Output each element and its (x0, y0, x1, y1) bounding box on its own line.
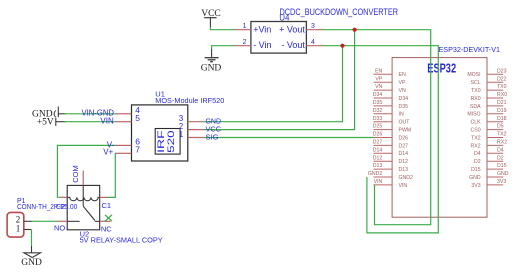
svg-text:GND: GND (21, 258, 42, 268)
svg-text:VIN: VIN (399, 183, 408, 189)
ESP32 right pin D23 (467, 68, 506, 78)
wire U1 pin 3 to -Vout net (GND) (204, 46, 343, 122)
svg-text:CLK: CLK (471, 120, 482, 126)
svg-text:SCL: SCL (471, 80, 481, 86)
ESP32 left pin D35 (373, 100, 408, 110)
svg-text:D19: D19 (497, 108, 507, 114)
wire P1 pin 1 to GND (31, 230, 33, 246)
svg-text:+Vin: +Vin (253, 24, 271, 34)
svg-text:D4: D4 (474, 151, 481, 157)
U1 inner box IRF520 (155, 129, 180, 155)
converter U4 DCDC_BUCKDOWN_CONVERTER (251, 7, 398, 53)
connector P1 body (7, 212, 24, 237)
svg-text:D2: D2 (497, 155, 504, 161)
svg-text:CONN-TH_2P-P5.00: CONN-TH_2P-P5.00 (17, 204, 77, 211)
ESP32 left pin D27 (373, 140, 408, 150)
ESP32 right pin D15 (471, 163, 507, 173)
svg-text:D21: D21 (497, 100, 507, 106)
P1 pin 2 (16, 215, 32, 225)
U4 pin 3 (306, 29, 322, 31)
ESP32 left pin D32 (373, 108, 404, 118)
svg-text:+ Vout: + Vout (279, 24, 305, 34)
ESP32 left pin EN (374, 68, 406, 78)
U1 pin 4 (116, 113, 132, 115)
ESP32 left pin D13 (373, 163, 408, 173)
relay pin C1 (100, 197, 111, 210)
svg-text:1: 1 (179, 130, 184, 139)
svg-text:GND: GND (497, 171, 509, 177)
svg-text:ESP32: ESP32 (427, 61, 456, 75)
svg-text:NC: NC (101, 224, 112, 233)
ESP32 left pin GND2 (368, 171, 413, 181)
svg-text:D14: D14 (399, 151, 409, 157)
svg-text:D35: D35 (399, 104, 409, 110)
relay pin NC (100, 221, 113, 233)
svg-text:D2: D2 (474, 159, 481, 165)
svg-text:RX0: RX0 (497, 92, 507, 98)
MOS module U1 MOS-Module IRF520 (132, 90, 225, 161)
ESP32 left pin D12 (373, 155, 408, 165)
net port +5V (37, 117, 66, 127)
svg-text:1: 1 (16, 223, 21, 233)
wire U1 pin 7 (V+) to relay C1 (108, 153, 116, 197)
svg-text:VN: VN (375, 84, 382, 90)
junction on +Vout net (353, 28, 357, 32)
svg-text:7: 7 (135, 145, 140, 155)
svg-text:TX0: TX0 (497, 84, 507, 90)
svg-text:TX0: TX0 (471, 88, 481, 94)
ESP32 left pin D14 (373, 147, 408, 157)
svg-text:D25: D25 (373, 124, 383, 130)
U4 pin 2 (235, 45, 251, 47)
wire VCC to U4 pin 1 (210, 27, 235, 30)
U1 pin 7 (116, 152, 132, 154)
relay pin NO (54, 221, 67, 232)
svg-text:GND: GND (469, 175, 481, 181)
svg-text:CS0: CS0 (471, 128, 481, 134)
svg-text:520: 520 (166, 130, 176, 153)
relay switch blade (83, 206, 95, 220)
wire U1 pin 6 (V-) to relay C2 (57, 145, 115, 197)
svg-text:GND2: GND2 (399, 175, 414, 181)
svg-text:5V RELAY-SMALL COPY: 5V RELAY-SMALL COPY (80, 236, 163, 245)
svg-text:MOSI: MOSI (467, 72, 480, 78)
U1 pin 1 (188, 137, 204, 139)
ESP32 right pin D19 (467, 108, 506, 118)
svg-text:TX2: TX2 (497, 132, 507, 138)
ESP32 right pin GND (469, 171, 509, 181)
ESP32 right pin RX0 (471, 92, 508, 102)
svg-text:COM: COM (71, 165, 80, 183)
ESP32 right pin D5 (471, 124, 504, 134)
no-connect flag on NC (105, 215, 112, 221)
ESP32 right pin TX2 (471, 132, 507, 142)
svg-text:2: 2 (243, 39, 247, 46)
svg-text:VP: VP (399, 80, 406, 86)
relay U2 body (67, 185, 100, 229)
ESP32 right pin TX0 (471, 84, 507, 94)
P1 pin 1 (16, 223, 32, 233)
svg-text:D34: D34 (373, 92, 383, 98)
svg-text:D15: D15 (497, 163, 507, 169)
svg-text:SDA: SDA (470, 104, 481, 110)
ESP32 left pin VIN (374, 179, 408, 189)
ESP32 right pin RX2 (471, 140, 508, 150)
svg-text:PWM: PWM (399, 128, 412, 134)
module U3 ESP32-DEVKIT-V1 body (392, 58, 487, 218)
wire U4 pin 2 to GND (212, 46, 235, 50)
junction on -Vout net (340, 44, 344, 48)
svg-text:MOS-Module IRF520: MOS-Module IRF520 (155, 96, 224, 105)
svg-text:D35: D35 (373, 100, 383, 106)
power flag GND bottom (21, 246, 42, 268)
ESP32 left pin D25 (373, 124, 411, 134)
svg-text:OUT: OUT (399, 120, 411, 126)
svg-text:D12: D12 (373, 155, 383, 161)
svg-text:IRF: IRF (156, 130, 166, 153)
U1 pin 6 (116, 144, 132, 146)
ESP32 left pin D33 (373, 116, 411, 126)
svg-text:D27: D27 (373, 140, 383, 146)
svg-text:EN: EN (399, 72, 406, 78)
svg-text:MISO: MISO (467, 112, 480, 118)
svg-text:VIN: VIN (100, 117, 114, 126)
svg-text:GND2: GND2 (368, 171, 383, 177)
svg-text:RX0: RX0 (471, 96, 481, 102)
U1 pin 3 (188, 121, 204, 123)
svg-text:3V3: 3V3 (497, 179, 506, 185)
relay armature (82, 185, 84, 206)
svg-text:D34: D34 (399, 96, 409, 102)
ESP32 right pin D22 (471, 76, 507, 86)
ESP32 left pin D34 (373, 92, 408, 102)
wire +Vout to ESP32 VIN (VCC net) (323, 30, 431, 225)
wire P1 pin 2 to relay NO (32, 220, 58, 222)
ESP32 right pin D18 (471, 116, 507, 126)
wire -Vout to ESP32 GND2 (GND net) (323, 46, 439, 233)
ESP32 right pin 3V3 (471, 179, 506, 189)
wire +5V port to U1 pin 5 (64, 121, 116, 123)
svg-text:D4: D4 (497, 147, 504, 153)
svg-text:D32: D32 (373, 108, 383, 114)
svg-text:D5: D5 (497, 124, 504, 130)
svg-text:- Vin: - Vin (253, 40, 271, 50)
svg-text:EN: EN (375, 68, 382, 74)
svg-text:D26: D26 (399, 135, 409, 141)
svg-text:D13: D13 (399, 167, 409, 173)
relay pin C2 (56, 197, 67, 211)
svg-text:D18: D18 (497, 116, 507, 122)
U1 pin 5 (116, 121, 132, 123)
wire U1 pin 1 to ESP32 D26 (SIG) (204, 137, 374, 139)
svg-text:RX2: RX2 (497, 140, 507, 146)
svg-text:- Vout: - Vout (281, 40, 305, 50)
svg-text:D13: D13 (373, 163, 383, 169)
svg-text:C1: C1 (102, 201, 112, 210)
svg-text:ESP32-DEVKIT-V1: ESP32-DEVKIT-V1 (439, 45, 501, 54)
svg-text:VP: VP (375, 76, 382, 82)
svg-text:+5V: +5V (37, 117, 54, 127)
svg-text:VN: VN (399, 88, 406, 94)
ESP32 left pin VP (374, 76, 406, 86)
svg-text:3V3: 3V3 (471, 183, 480, 189)
ESP32 left pin D26 (373, 132, 408, 142)
svg-text:NO: NO (54, 223, 65, 232)
relay coil (67, 197, 100, 200)
relay NO contact (67, 220, 79, 222)
U4 pin 4 (306, 45, 322, 47)
svg-text:D33: D33 (373, 116, 383, 122)
svg-text:D23: D23 (497, 68, 507, 74)
U4 pin 1 (235, 29, 251, 31)
svg-text:D12: D12 (399, 159, 409, 165)
svg-text:1: 1 (243, 23, 247, 30)
relay NC contact (95, 220, 100, 222)
svg-text:5: 5 (135, 113, 140, 123)
ESP32 right pin D21 (470, 100, 507, 110)
net port GND (32, 107, 66, 120)
wire GND port to U1 pin 4 (64, 113, 116, 115)
svg-text:4: 4 (311, 39, 315, 46)
svg-text:TX2: TX2 (471, 135, 481, 141)
wire U1 pin 2 to +Vout net (VCC) (204, 30, 355, 130)
svg-text:DCDC_BUCKDOWN_CONVERTER: DCDC_BUCKDOWN_CONVERTER (280, 7, 399, 17)
svg-text:SIG: SIG (206, 132, 219, 141)
svg-text:D14: D14 (373, 147, 383, 153)
svg-text:RX2: RX2 (471, 143, 481, 149)
ESP32 right pin D4 (474, 147, 504, 157)
svg-text:D15: D15 (471, 167, 481, 173)
relay pin COM (71, 165, 83, 185)
svg-text:D22: D22 (497, 76, 507, 82)
svg-text:D27: D27 (399, 143, 409, 149)
svg-text:IN: IN (399, 112, 404, 118)
power flag GND top (201, 49, 222, 73)
ESP32 right pin D2 (474, 155, 504, 165)
svg-text:V+: V+ (103, 148, 113, 157)
ESP32 left pin VN (374, 84, 406, 94)
svg-text:D26: D26 (373, 132, 383, 138)
power flag VCC (201, 9, 221, 27)
svg-text:3: 3 (311, 23, 315, 30)
U1 pin 2 (188, 129, 204, 131)
svg-text:VIN: VIN (374, 179, 383, 185)
svg-text:GND: GND (201, 63, 222, 73)
